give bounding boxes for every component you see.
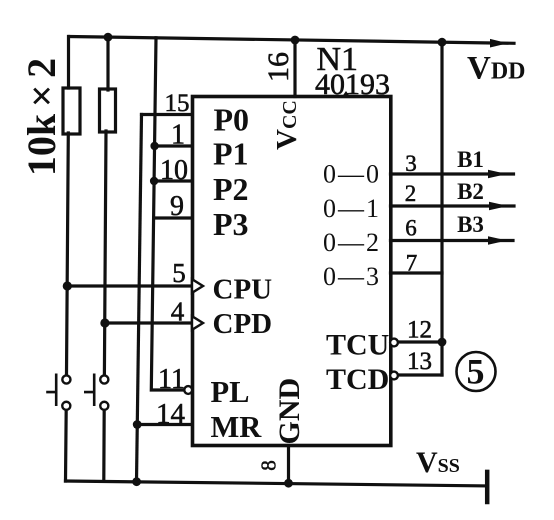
svg-text:5: 5 [172, 258, 186, 288]
wire VSS terminal bar [485, 472, 490, 502]
figure number circle 5 [457, 352, 496, 391]
switch S1 actuator [46, 374, 56, 407]
svg-text:TCU: TCU [326, 329, 389, 362]
svg-text:4: 4 [171, 297, 185, 327]
switch S1 contact bottom [62, 402, 70, 410]
svg-text:CPU: CPU [213, 274, 273, 306]
clock arrow CPU [192, 279, 203, 293]
junction dot CPD pullup [100, 318, 109, 327]
arrowhead VDD rail [490, 39, 508, 48]
wire resistor R1 top lead [67, 37, 70, 89]
svg-text:3: 3 [405, 151, 417, 176]
wire switch S1 lower lead [64, 409, 68, 482]
IC top edge notch [341, 91, 351, 98]
junction dot ground rail left [132, 477, 141, 486]
wire pin 3 output B1 line [391, 172, 514, 175]
wire pin 12 TCU stub [397, 340, 442, 343]
junction dot ground rail pin8 [284, 479, 293, 488]
svg-text:0—1: 0—1 [323, 194, 381, 223]
switch S2 actuator [84, 374, 94, 407]
svg-text:TCD: TCD [326, 363, 389, 396]
wire pin 14 stub MR [137, 423, 192, 426]
arrowhead B3 [488, 236, 507, 245]
svg-text:P3: P3 [213, 206, 249, 242]
svg-text:40193: 40193 [315, 68, 390, 101]
svg-text:1: 1 [171, 120, 185, 151]
wire pin 7 stub [391, 271, 443, 274]
junction dot rail pin16 [291, 36, 300, 45]
svg-text:16: 16 [262, 52, 295, 82]
svg-text:10: 10 [160, 155, 188, 186]
clock arrow CPD [192, 316, 203, 330]
svg-text:5: 5 [467, 352, 485, 392]
svg-text:10k × 2: 10k × 2 [19, 58, 64, 176]
svg-text:7: 7 [406, 251, 418, 276]
svg-text:13: 13 [407, 348, 432, 375]
junction dot pin10 [150, 177, 158, 185]
svg-text:P1: P1 [213, 136, 249, 172]
wire VDD top rail [69, 37, 514, 44]
wire VSS bottom rail [66, 481, 488, 486]
wire CPU input line pin 5 [67, 284, 192, 287]
wire vertical P0/MR ground line [137, 115, 142, 482]
junction dot rail right vertical [438, 38, 447, 47]
wire right vertical from VDD rail to TCU/TCD [440, 42, 443, 375]
wire switch S2 lower lead [102, 409, 106, 482]
wire pin 15 stub P0 [142, 113, 193, 116]
wire pin 8 GND drop [287, 446, 290, 484]
wire R2 bottom lead to switch S2 [104, 131, 106, 373]
svg-text:B2: B2 [457, 179, 484, 204]
wire pin 16 VCC drop [293, 40, 296, 97]
svg-text:PL: PL [211, 375, 250, 409]
wire pin 13 TCD stub [397, 373, 442, 376]
wire pin 10 stub P2 [154, 179, 192, 182]
wire pin 9 stub P3 [154, 216, 192, 219]
arrowhead B1 [488, 170, 507, 179]
svg-text:CPD: CPD [213, 308, 273, 340]
junction dot CPU pullup [63, 281, 72, 290]
svg-text:12: 12 [407, 317, 432, 344]
switch S1 contact top [62, 375, 70, 383]
wire pin 2 output B2 line [391, 204, 515, 207]
junction dot TCU [438, 338, 447, 347]
svg-text:2: 2 [405, 181, 417, 206]
wire vertical VDD drop to PL [151, 38, 184, 390]
IC U1 40193 body [193, 97, 391, 446]
wire resistor R2 top lead [106, 37, 109, 90]
svg-text:P2: P2 [213, 171, 249, 207]
wire pin 1 stub P1 [155, 144, 192, 147]
svg-text:MR: MR [211, 410, 263, 444]
resistor R2 [100, 89, 116, 132]
wire pin 6 output B3 line [391, 239, 514, 242]
svg-text:GND: GND [273, 378, 306, 445]
arrowhead B2 [489, 202, 508, 211]
svg-text:P0: P0 [214, 102, 250, 138]
svg-text:B3: B3 [457, 212, 484, 237]
switch S2 contact bottom [100, 402, 108, 410]
svg-text:11: 11 [158, 364, 185, 395]
switch S2 contact top [100, 375, 108, 383]
wire R1 bottom lead to switch S1 [67, 133, 69, 373]
svg-text:14: 14 [156, 398, 186, 430]
junction dot rail R2 [104, 33, 113, 42]
wire CPD input line pin 4 [105, 321, 192, 324]
bubble TCU pin 12 [390, 339, 398, 347]
svg-text:0—2: 0—2 [323, 228, 381, 257]
svg-text:0—3: 0—3 [323, 262, 381, 291]
svg-text:9: 9 [170, 191, 184, 222]
bubble TCD pin 13 [390, 372, 398, 380]
bubble PL pin 11 [184, 386, 192, 394]
svg-text:0—0: 0—0 [323, 160, 381, 189]
svg-text:6: 6 [405, 216, 417, 241]
svg-text:15: 15 [165, 90, 190, 117]
svg-text:B1: B1 [457, 147, 484, 172]
junction dot pin1 [150, 142, 158, 150]
resistor R1 [63, 88, 80, 134]
svg-text:8: 8 [257, 460, 281, 471]
junction dot MR line [133, 420, 142, 429]
